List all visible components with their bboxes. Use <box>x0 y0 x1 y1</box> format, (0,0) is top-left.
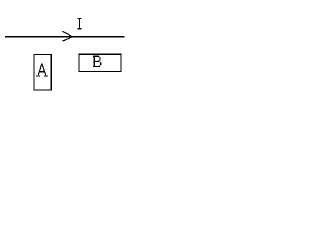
label A <box>36 64 48 77</box>
current arrow I (arrowhead on wire) <box>62 31 73 41</box>
component A box <box>34 55 51 91</box>
wire <box>5 36 125 38</box>
component B box <box>79 54 121 71</box>
label I (current) <box>77 18 81 29</box>
label B <box>93 56 101 67</box>
